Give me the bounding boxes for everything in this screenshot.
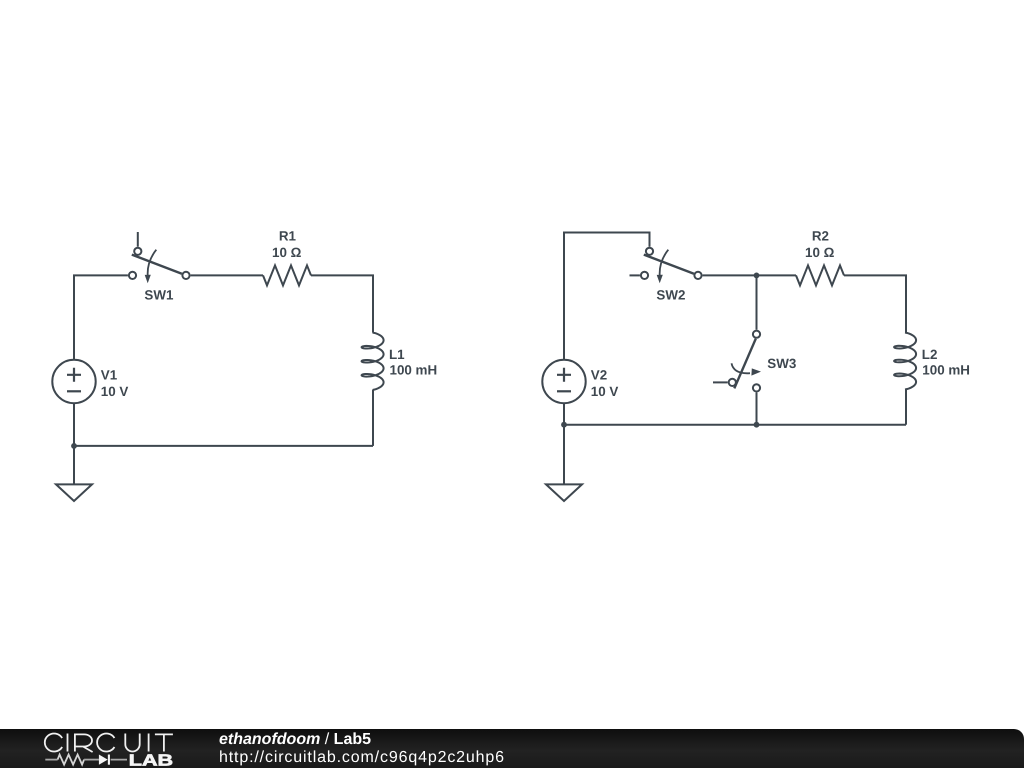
wire V2 bottom to ground node [563, 403, 565, 425]
wire SW1 to R1 [191, 274, 263, 276]
svg-text:V1: V1 [101, 368, 118, 383]
svg-text:L1: L1 [389, 347, 405, 362]
svg-text:100 mH: 100 mH [922, 363, 970, 378]
svg-text:V2: V2 [591, 368, 607, 383]
junction dot at V1 ground node [71, 443, 77, 449]
svg-text:SW2: SW2 [656, 287, 685, 302]
resistor R1 [263, 265, 311, 285]
svg-text:10 V: 10 V [591, 384, 619, 399]
wire V1 top to SW1 left terminal [74, 275, 128, 360]
svg-text:L2: L2 [922, 347, 938, 362]
resistor R2 [796, 265, 844, 285]
junction dot SW3 top node [754, 273, 760, 279]
svg-text:R1: R1 [279, 228, 297, 243]
logo word CIRCUIT [45, 734, 173, 753]
wire V2 top to SW2 top terminal [564, 233, 650, 361]
svg-text:10 V: 10 V [101, 384, 129, 399]
wire R1 to L1 [311, 275, 373, 332]
voltage source V2 [542, 360, 585, 403]
inductor L2 [894, 333, 916, 390]
svg-text:LAB: LAB [129, 753, 173, 768]
wire L2 bottom to rail [905, 390, 907, 425]
junction dot at V2 ground node [561, 422, 567, 428]
svg-text:10 Ω: 10 Ω [805, 245, 835, 260]
svg-text:SW1: SW1 [144, 287, 174, 302]
wire L1 bottom to rail [372, 390, 374, 446]
switch SW3 [713, 331, 761, 392]
switch SW2 [630, 248, 702, 284]
svg-text:10 Ω: 10 Ω [272, 245, 302, 260]
wire bottom rail left circuit [74, 445, 373, 447]
inductor L1 [362, 333, 384, 391]
footer bar [0, 729, 1024, 768]
voltage source V1 [52, 360, 95, 403]
svg-text:SW3: SW3 [767, 356, 796, 371]
wire bottom rail right circuit [564, 424, 906, 426]
wire V1 bottom to ground node [73, 403, 75, 446]
wire SW3 bottom to rail [756, 393, 758, 425]
switch SW1 [129, 232, 190, 283]
wire SW2 to junction to R2 [703, 274, 796, 276]
wire junction down to SW3 [756, 275, 758, 329]
footer url [219, 749, 505, 766]
svg-text:100 mH: 100 mH [390, 363, 438, 378]
junction dot SW3 bottom node [754, 422, 760, 428]
svg-text:R2: R2 [812, 228, 829, 243]
logo resistor-diode [45, 755, 127, 765]
footer title ethanofdoom / Lab5 [219, 731, 371, 748]
ground symbol left [56, 446, 92, 501]
ground symbol right [546, 425, 582, 501]
wire R2 to L2 [844, 275, 906, 332]
